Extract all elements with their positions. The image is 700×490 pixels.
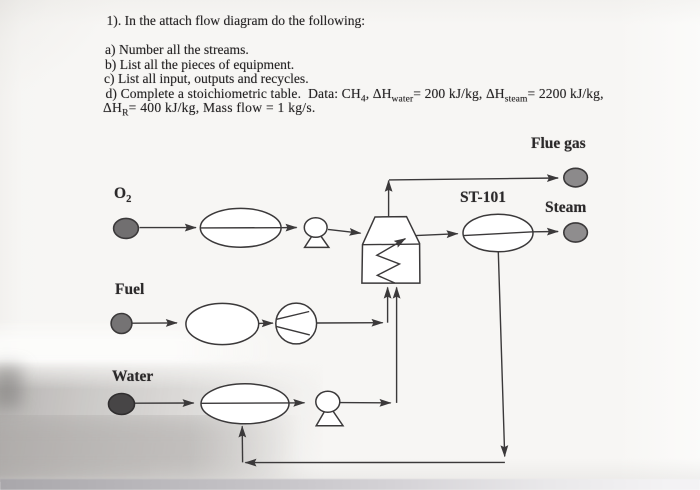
stream 12: M2 to compressor K1 (259, 322, 273, 324)
furnace burner zigzag (377, 239, 406, 283)
stream 4: furnace flue vertical (388, 181, 390, 217)
label Flue gas (531, 136, 586, 152)
compressor K1 vane upper (277, 312, 310, 320)
node O2 inlet (114, 218, 139, 238)
furnace junction line (363, 243, 420, 246)
turbine ST-101 (463, 214, 533, 252)
stream 9: recycle horizontal (245, 461, 505, 463)
compressor K1 body (276, 303, 317, 344)
label O2 (114, 186, 131, 202)
mixer M1 (O2) (200, 208, 281, 247)
pump P2 base (316, 405, 343, 426)
stream 2: M1 to pump P1 (281, 227, 297, 229)
mixer M2 (fuel) (186, 303, 259, 344)
node Steam outlet (564, 223, 588, 242)
M1 interior line (201, 227, 281, 229)
node Fuel inlet (111, 314, 132, 334)
stream 17: P2 to water riser corner (340, 402, 391, 404)
label Water (112, 369, 153, 385)
stream 18: water riser into furnace (396, 287, 398, 403)
stream 7: ST-101 to steam node (533, 231, 558, 233)
stream 3: P1 to furnace (328, 229, 361, 233)
compressor K1 vane lower (276, 326, 310, 335)
furnace F-101 outline (362, 217, 420, 284)
mixer M3 (water) (201, 384, 289, 424)
stream 13: K1 to fuel riser corner (317, 322, 383, 324)
pump P2 body (316, 391, 340, 412)
problem statement text (107, 13, 366, 28)
stream 10: recycle vertical into mixer M3 (241, 426, 243, 462)
stream 16: M3 to pump P2 (289, 402, 305, 404)
node Water inlet (109, 394, 135, 415)
stream 8: ST-101 down to recycle corner (498, 252, 504, 457)
node Flue gas outlet (564, 168, 588, 187)
stream 5: flue gas horizontal (389, 178, 558, 180)
pump P1 base (305, 230, 329, 248)
M3 interior line (202, 402, 290, 404)
stream 1: O2 to mixer M1 (140, 227, 197, 229)
stream 15: water to mixer M3 (135, 402, 194, 404)
label Fuel (115, 282, 144, 298)
ST-101 interior line (464, 232, 534, 236)
label Steam (545, 200, 586, 216)
stream 14: fuel riser into furnace (387, 287, 389, 322)
pump P1 body (304, 218, 327, 238)
stream 6: furnace to turbine ST-101 (416, 234, 458, 236)
stream 11: fuel to mixer M2 (133, 322, 178, 324)
label ST-101 (460, 190, 506, 206)
